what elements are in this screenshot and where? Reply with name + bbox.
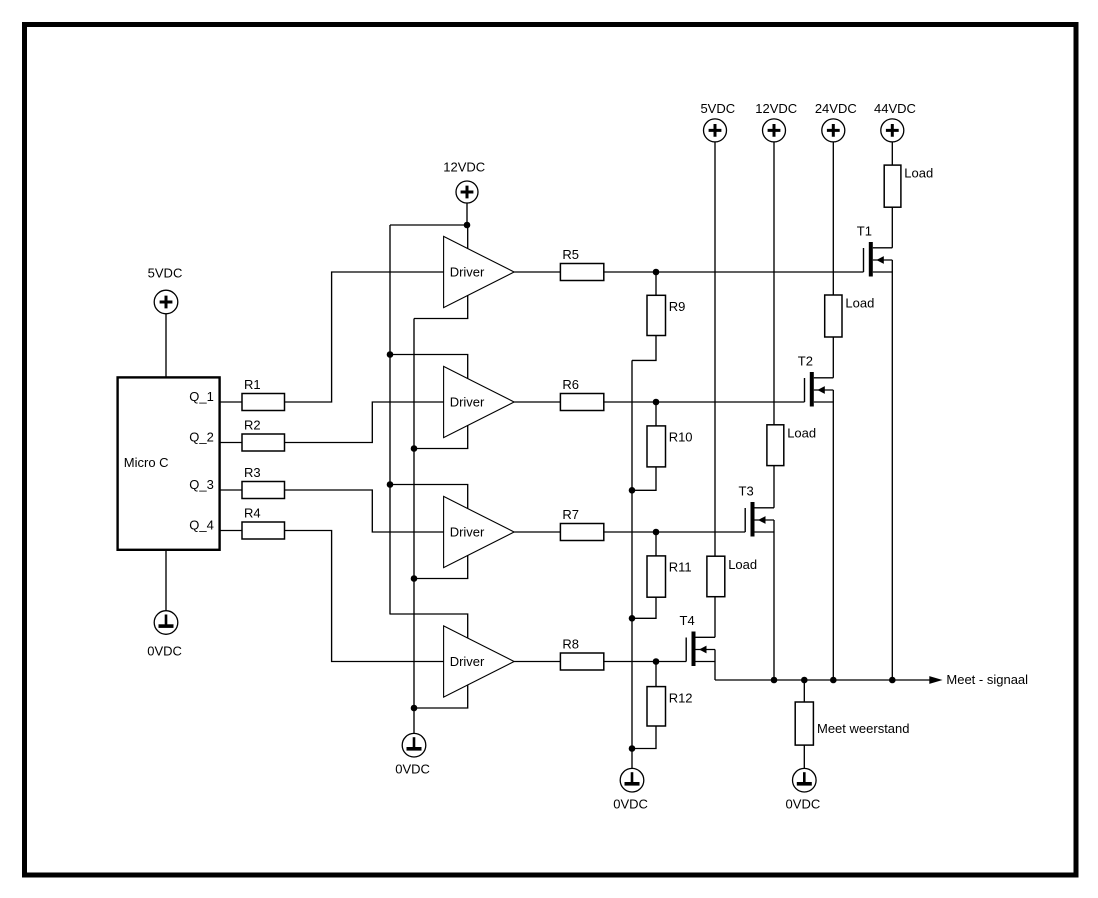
svg-text:Driver: Driver — [450, 525, 485, 540]
transistor T2 (N-MOSFET) — [798, 354, 834, 407]
wire 5VDC rail to Load — [714, 142, 716, 556]
micro-controller U1 Micro C — [118, 377, 220, 549]
node T3 source on measure line — [771, 677, 778, 684]
op-amp U4 Driver 3 — [444, 496, 514, 567]
wire T2 source down to measure line — [832, 390, 834, 680]
power supply 5VDC (left, Micro C) — [148, 265, 183, 313]
resistor R9 — [647, 295, 685, 335]
ground 0VDC (driver bus) — [395, 733, 430, 776]
wire driver 2 output to R6 — [514, 401, 560, 403]
resistor Load (44VDC) — [884, 165, 933, 207]
wire pin Q_4 to R4 — [220, 530, 242, 532]
svg-text:0VDC: 0VDC — [613, 797, 648, 812]
transistor T3 (N-MOSFET) — [739, 484, 775, 537]
svg-text:12VDC: 12VDC — [755, 101, 797, 116]
op-amp U3 Driver 2 — [444, 366, 514, 437]
svg-text:T3: T3 — [739, 484, 754, 499]
wire tap to R12 — [655, 662, 657, 687]
node line 4 / R12 tap — [653, 658, 660, 665]
svg-text:0VDC: 0VDC — [395, 762, 430, 777]
node T2 source on measure line — [830, 677, 837, 684]
svg-text:24VDC: 24VDC — [815, 101, 857, 116]
wire 24VDC rail to Load — [832, 142, 834, 295]
wire T1 source down to measure line — [891, 260, 893, 680]
wire R3 to driver U4 input — [285, 490, 444, 532]
node T1 source on measure line — [889, 677, 896, 684]
wire T3 source down to measure line — [773, 520, 775, 680]
resistor Meet weerstand — [795, 702, 909, 745]
node R12 ground junction — [629, 745, 636, 752]
power supply 12VDC (top rail) — [755, 101, 797, 142]
svg-text:Meet - signaal: Meet - signaal — [946, 672, 1028, 687]
svg-text:R9: R9 — [669, 299, 686, 314]
wire measure line to Meet weerstand — [803, 680, 805, 702]
node R10 ground junction — [629, 487, 636, 494]
svg-text:5VDC: 5VDC — [148, 265, 183, 280]
svg-text:R12: R12 — [669, 690, 693, 705]
transistor T4 (N-MOSFET) — [680, 613, 716, 666]
wire pin Q_1 to R1 — [220, 401, 242, 403]
svg-text:Driver: Driver — [450, 265, 485, 280]
wire 12VDC node to left bus — [390, 224, 467, 226]
power supply 24VDC (top rail) — [815, 101, 857, 142]
resistor R6 — [560, 377, 603, 411]
svg-text:R1: R1 — [244, 377, 261, 392]
wire driver 3 output to R7 — [514, 531, 560, 533]
op-amp U2 Driver 1 — [444, 236, 514, 307]
ground 0VDC (left, Micro C) — [147, 611, 182, 659]
wire Load to T4 drain — [714, 597, 716, 638]
svg-text:Driver: Driver — [450, 654, 485, 669]
wire pin Q_3 to R3 — [220, 489, 242, 491]
wire R12 bottom to ground bus — [632, 726, 656, 749]
wire driver 1 output to R5 — [514, 271, 560, 273]
wire R9 bottom to ground bus — [632, 336, 656, 361]
node Meet weerstand tap — [801, 677, 808, 684]
wire R5 to T1 gate — [604, 271, 864, 273]
svg-text:R4: R4 — [244, 505, 261, 520]
wire measure line (Meet - signaal) — [715, 679, 930, 681]
wire 5VDC supply to Micro C top — [165, 314, 167, 378]
svg-text:R8: R8 — [562, 636, 579, 651]
svg-text:44VDC: 44VDC — [874, 101, 916, 116]
wire Load to T1 drain — [891, 207, 893, 248]
node line 2 / R10 tap — [653, 399, 660, 406]
svg-text:Micro C: Micro C — [124, 455, 169, 470]
node R11 ground junction — [629, 615, 636, 622]
wire R8 to T4 gate — [604, 661, 686, 663]
wire R11 bottom to ground bus — [632, 597, 656, 618]
wire Load to T2 drain — [832, 337, 834, 378]
resistor R10 — [647, 426, 693, 467]
wire driver 1 ground stub — [414, 295, 468, 318]
ground 0VDC (pulldown bus) — [613, 768, 648, 811]
wire driver ground bus (vertical) — [413, 319, 415, 734]
svg-text:Load: Load — [845, 296, 874, 311]
resistor R3 — [242, 465, 285, 499]
resistor Load (5VDC) — [707, 556, 757, 597]
resistor Load (24VDC) — [825, 295, 875, 337]
svg-text:Q_2: Q_2 — [189, 429, 214, 444]
op-amp U5 Driver 4 — [444, 626, 514, 697]
svg-text:R5: R5 — [562, 247, 579, 262]
transistor T1 (N-MOSFET) — [857, 224, 893, 277]
resistor Load (12VDC) — [767, 425, 816, 466]
resistor R1 — [242, 377, 285, 411]
svg-text:Load: Load — [904, 166, 933, 181]
resistor R11 — [647, 556, 692, 597]
wire tap to R10 — [655, 402, 657, 426]
wire driver 2 V+ stub — [390, 355, 468, 379]
resistor R7 — [560, 507, 603, 541]
wire Meet weerstand to ground — [803, 745, 805, 768]
wire driver 2 ground stub — [414, 425, 468, 448]
svg-text:Q_3: Q_3 — [189, 477, 214, 492]
svg-text:12VDC: 12VDC — [443, 160, 485, 175]
node driver 4 ground junction — [411, 705, 418, 712]
node 12VDC junction — [464, 222, 471, 229]
wire R10 bottom to ground bus — [632, 467, 656, 490]
wire driver 4 ground stub — [414, 685, 468, 708]
svg-text:0VDC: 0VDC — [786, 797, 821, 812]
svg-text:R6: R6 — [562, 377, 579, 392]
wire pin Q_2 to R2 — [220, 442, 242, 444]
svg-text:Meet weerstand: Meet weerstand — [817, 721, 910, 736]
power supply 5VDC (top rail) — [700, 101, 735, 142]
wire R6 to T2 gate — [604, 401, 805, 403]
wire driver 4 V+ stub — [390, 614, 468, 638]
wire pulldown ground bus (vertical) — [631, 360, 633, 768]
resistor R4 — [242, 505, 285, 539]
wire tap to R9 — [655, 272, 657, 295]
wire 12VDC distribution bus (vertical) — [389, 225, 391, 615]
wire driver 1 V+ stub — [467, 225, 469, 249]
svg-text:T1: T1 — [857, 224, 872, 239]
svg-text:R7: R7 — [562, 507, 579, 522]
wire 12VDC supply to node — [466, 203, 468, 225]
svg-text:R3: R3 — [244, 465, 261, 480]
resistor R12 — [647, 687, 693, 726]
svg-text:T2: T2 — [798, 354, 813, 369]
wire 44VDC rail to Load — [891, 142, 893, 165]
node driver 2 V+ junction — [387, 351, 394, 358]
wire R1 to driver U2 input — [285, 272, 444, 402]
resistor R2 — [242, 417, 285, 451]
wire R7 to T3 gate — [604, 531, 745, 533]
power supply 44VDC (top rail) — [874, 101, 916, 142]
wire 12VDC rail to Load — [773, 142, 775, 425]
wire driver 4 output to R8 — [514, 661, 560, 663]
node line 3 / R11 tap — [653, 529, 660, 536]
wire R2 to driver U3 input — [285, 402, 444, 443]
svg-text:5VDC: 5VDC — [700, 101, 735, 116]
svg-text:0VDC: 0VDC — [147, 644, 182, 659]
svg-text:Q_4: Q_4 — [189, 517, 214, 532]
wire arrow Meet - signaal output — [929, 672, 1028, 687]
ground 0VDC (Meet weerstand) — [786, 768, 821, 811]
node line 1 / R9 tap — [653, 269, 660, 276]
resistor R5 — [560, 247, 603, 281]
wire driver 3 ground stub — [414, 555, 468, 578]
svg-text:Driver: Driver — [450, 395, 485, 410]
svg-text:Q_1: Q_1 — [189, 389, 214, 404]
svg-text:T4: T4 — [680, 613, 695, 628]
wire R4 to driver U5 input — [285, 531, 444, 662]
node driver 3 ground junction — [411, 575, 418, 582]
wire Micro C bottom to ground — [165, 550, 167, 611]
svg-text:R10: R10 — [669, 430, 693, 445]
svg-text:R2: R2 — [244, 417, 261, 432]
power supply 12VDC (driver rail) — [443, 160, 485, 203]
svg-text:R11: R11 — [669, 560, 692, 575]
node driver 3 V+ junction — [387, 481, 394, 488]
resistor R8 — [560, 636, 603, 670]
svg-text:Load: Load — [787, 425, 816, 440]
svg-text:Load: Load — [728, 557, 757, 572]
node driver 2 ground junction — [411, 445, 418, 452]
wire driver 3 V+ stub — [390, 485, 468, 509]
wire T4 source down to measure line — [714, 650, 716, 681]
wire Load to T3 drain — [773, 466, 775, 508]
wire tap to R11 — [655, 532, 657, 556]
